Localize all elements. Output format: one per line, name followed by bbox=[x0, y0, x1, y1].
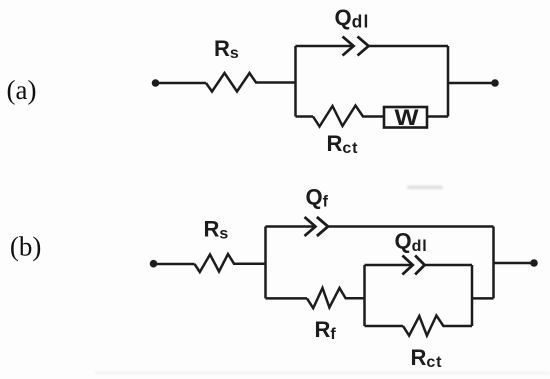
svg-text:Rs: Rs bbox=[214, 36, 239, 62]
svg-text:Rct: Rct bbox=[327, 131, 359, 157]
svg-text:(b): (b) bbox=[10, 232, 41, 262]
svg-text:(a): (a) bbox=[7, 75, 37, 105]
svg-text:Qf: Qf bbox=[306, 185, 329, 211]
svg-text:Qdl: Qdl bbox=[335, 5, 370, 32]
svg-text:Rf: Rf bbox=[315, 317, 337, 343]
svg-text:W: W bbox=[395, 105, 419, 130]
svg-text:Qdl: Qdl bbox=[395, 229, 428, 256]
svg-text:Rct: Rct bbox=[411, 345, 443, 371]
svg-text:Rs: Rs bbox=[204, 217, 229, 243]
